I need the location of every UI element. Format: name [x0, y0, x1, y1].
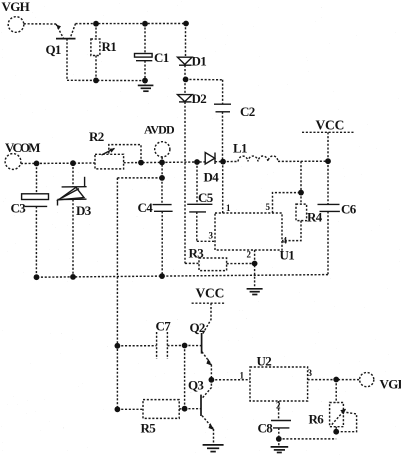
svg-text:C8: C8: [258, 421, 274, 436]
svg-text:D4: D4: [204, 170, 220, 185]
svg-text:R3: R3: [189, 246, 205, 261]
svg-text:VGH: VGH: [2, 0, 30, 14]
svg-text:C4: C4: [138, 200, 154, 215]
svg-text:U2: U2: [257, 354, 272, 369]
svg-text:1: 1: [240, 371, 245, 381]
svg-text:D1: D1: [192, 54, 207, 69]
svg-text:C6: C6: [341, 202, 357, 217]
svg-text:C7: C7: [156, 319, 172, 334]
svg-text:VGL: VGL: [380, 377, 401, 392]
svg-text:VCOM: VCOM: [5, 140, 40, 155]
svg-text:5: 5: [266, 202, 271, 212]
svg-text:4: 4: [283, 236, 288, 246]
svg-text:C1: C1: [154, 50, 169, 65]
svg-text:AVDD: AVDD: [144, 123, 175, 137]
svg-text:R2: R2: [89, 129, 104, 144]
svg-text:R6: R6: [309, 412, 325, 427]
svg-text:D2: D2: [192, 91, 207, 106]
svg-text:Q3: Q3: [188, 378, 204, 393]
svg-text:C2: C2: [240, 104, 255, 119]
svg-text:VCC: VCC: [316, 118, 345, 133]
svg-text:L1: L1: [233, 141, 247, 156]
svg-text:Q2: Q2: [190, 320, 205, 335]
svg-text:VCC: VCC: [196, 286, 225, 301]
svg-text:3: 3: [209, 231, 214, 241]
svg-text:R5: R5: [141, 421, 157, 436]
svg-text:2: 2: [247, 250, 252, 260]
svg-text:R4: R4: [307, 210, 323, 225]
svg-text:2: 2: [276, 401, 281, 411]
svg-text:Q1: Q1: [46, 42, 61, 57]
svg-text:C5: C5: [198, 190, 214, 205]
svg-text:1: 1: [226, 203, 231, 213]
svg-text:D3: D3: [76, 203, 92, 218]
svg-text:U1: U1: [280, 248, 295, 263]
svg-text:R1: R1: [102, 39, 117, 54]
svg-text:C3: C3: [11, 201, 27, 216]
svg-text:3: 3: [308, 368, 313, 378]
